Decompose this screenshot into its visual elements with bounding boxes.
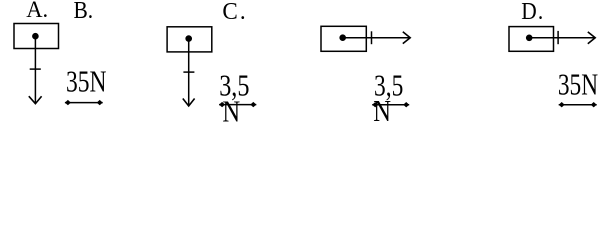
scale unit N (option B) [222, 94, 240, 128]
svg-text:A.: A. [26, 0, 48, 22]
svg-text:B.: B. [74, 0, 94, 23]
option label D [521, 0, 543, 24]
box C [321, 26, 366, 51]
svg-text:D.: D. [521, 0, 543, 24]
svg-text:35N: 35N [66, 65, 106, 99]
scale unit N (option C) [373, 94, 391, 128]
scale value 3,5 (option C) [374, 69, 403, 103]
svg-text:N: N [373, 94, 391, 128]
arrowhead C [403, 32, 410, 44]
svg-text:N: N [222, 94, 240, 128]
box B [167, 27, 212, 52]
tick A (unit division) [30, 68, 41, 70]
force vector B (down) [188, 39, 190, 106]
scale bar 35N (option A) [65, 100, 103, 105]
dot B (point of application) [185, 35, 192, 42]
dot A (point of application) [32, 33, 39, 40]
scale value 3,5 (option B) [219, 69, 249, 102]
box A [14, 24, 59, 49]
force vector C (right) [343, 37, 411, 39]
scale bar 35N (option D) [559, 102, 597, 107]
box D [509, 27, 554, 52]
arrowhead A [29, 96, 42, 104]
tick B (unit division) [183, 71, 194, 73]
arrowhead D [588, 32, 595, 44]
dot C (point of application) [339, 34, 346, 41]
option label B [74, 0, 94, 23]
tick D (unit division) [557, 31, 559, 44]
option label C [222, 0, 245, 25]
force vector D (right) [529, 37, 595, 39]
dot D (point of application) [526, 35, 533, 42]
tick C (unit division) [371, 31, 373, 44]
scale bar 3,5 N (option B) [219, 102, 256, 107]
svg-text:C.: C. [222, 0, 245, 25]
option label A [26, 0, 48, 22]
scale value 35N (option A) [66, 65, 106, 99]
scale value 35N (option D) [558, 68, 598, 102]
svg-text:35N: 35N [558, 68, 598, 102]
arrowhead B [183, 99, 195, 107]
scale bar 3,5 N (option C) [372, 102, 409, 107]
force vector A (down) [34, 36, 36, 103]
